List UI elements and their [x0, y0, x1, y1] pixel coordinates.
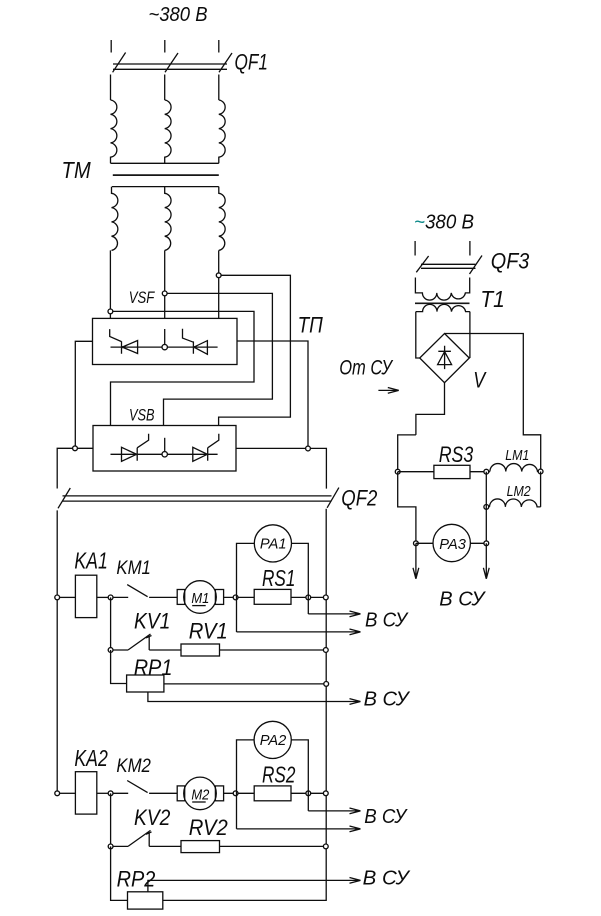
wire phase 1 to VSF [109, 250, 111, 318]
wire bridge plus output [445, 334, 541, 472]
breaker QF1 blade 1 [113, 53, 126, 73]
wire QF1 to TM phase 2 [164, 75, 166, 101]
svg-text:М1: М1 [191, 590, 209, 607]
breaker QF3 bus lines [421, 264, 476, 268]
svg-text:V: V [473, 367, 487, 392]
svg-text:RP1: RP1 [134, 655, 173, 680]
node RS3 left [395, 469, 400, 474]
wire rail to KA1 [60, 596, 76, 598]
wire VSF mid lead [164, 329, 166, 344]
svg-text:LM1: LM1 [505, 448, 529, 464]
ammeter PA1 [254, 525, 291, 562]
wire RV2 to rail [220, 845, 326, 847]
transformer TM primary winding 1 [111, 100, 117, 163]
wire RS3 to node [470, 471, 490, 473]
shunt RS1 [254, 589, 291, 604]
wire VSB mid lead [164, 438, 166, 452]
wire QF1 to TM phase 1 [110, 75, 112, 101]
node PA3 right [484, 541, 489, 546]
wire RS3 node down to PA3 [485, 472, 487, 544]
svg-text:ТМ: ТМ [62, 157, 92, 183]
wire bridge minus output [398, 383, 445, 472]
svg-text:RS3: RS3 [439, 442, 474, 467]
wire VSF left output [75, 341, 92, 448]
converter block VSB [93, 426, 236, 472]
breaker QF3 left blade [416, 256, 428, 272]
node rail RP1 row [324, 682, 329, 687]
wire TM secondary top bus [112, 186, 219, 188]
inductor LM1 [490, 464, 541, 472]
contact KV2 [113, 830, 181, 846]
wire PA1 left branch [237, 543, 255, 632]
transformer T1 primary [415, 278, 469, 301]
wire left branch to PA3 [398, 472, 416, 544]
inductor LM2 [486, 499, 540, 507]
resistor RP2 [128, 892, 163, 909]
svg-text:RS2: RS2 [262, 762, 295, 788]
node RS3 right [484, 469, 489, 474]
contact KM2 [113, 781, 177, 794]
node KV1 left [108, 648, 113, 653]
svg-text:KM1: KM1 [116, 558, 150, 579]
arrow Ot SU [378, 388, 398, 394]
wire PA1 right branch [292, 543, 309, 614]
svg-text:М2: М2 [191, 786, 210, 803]
wire to SU row2 b [237, 826, 361, 832]
wire tap phase 3 [219, 275, 291, 425]
svg-text:LM2: LM2 [507, 484, 531, 500]
svg-text:KA1: KA1 [74, 548, 107, 574]
wire KV2 node to RP2 [111, 846, 128, 900]
node M1 output [233, 595, 238, 600]
node VSB center [162, 452, 167, 457]
wire node to KV1 [110, 597, 112, 650]
wire left rail [56, 510, 58, 793]
svg-text:KV1: KV1 [134, 609, 170, 634]
motor M1 [177, 581, 223, 614]
transformer TM primary winding 2 [165, 100, 171, 163]
wire RV1 to rail [220, 649, 326, 651]
node rail KA2 row [55, 791, 60, 796]
svg-text:RV2: RV2 [189, 815, 228, 840]
node rail KV1 row [323, 648, 328, 653]
wire RS1 to rail [291, 596, 326, 598]
svg-text:~380 В: ~380 В [414, 210, 474, 233]
wire VSF internal bus [111, 346, 218, 348]
breaker QF3 right blade [470, 256, 483, 275]
svg-text:От СУ: От СУ [339, 356, 394, 379]
breaker QF1 blade 3 [219, 53, 232, 72]
wire RP1 to rail [164, 683, 326, 685]
svg-text:KM2: KM2 [116, 756, 151, 777]
contact KV1 [113, 634, 181, 650]
breaker QF1 bus lines [113, 64, 227, 69]
svg-text:~380 В: ~380 В [149, 3, 208, 26]
motor M2 [177, 777, 223, 810]
wire VSB right output [236, 448, 326, 488]
wire KV1 node to RP1 [111, 650, 127, 684]
wire M1 to RS1 [224, 596, 255, 598]
wire RP1 to SU [148, 692, 361, 704]
svg-text:QF3: QF3 [491, 249, 530, 274]
node PA3 left [414, 541, 419, 546]
svg-text:KA2: KA2 [74, 745, 107, 771]
resistor RP1 [127, 675, 164, 692]
arrow V SU left [413, 543, 419, 579]
transformer TM secondary winding 3 [219, 187, 225, 251]
svg-text:KV2: KV2 [134, 805, 170, 830]
phase stub L3 [218, 40, 220, 53]
svg-text:RP2: RP2 [117, 867, 156, 892]
rectifier bridge V diamond [420, 334, 470, 383]
wire to SU row1 a [308, 611, 360, 617]
wire T1 secondary right lead [469, 312, 471, 358]
wire PA2 left branch [237, 740, 255, 829]
wire node to KV2 [110, 793, 112, 846]
node RS2 right [306, 791, 311, 796]
contact KM1 [113, 585, 177, 598]
transformer TM primary winding 3 [219, 100, 225, 163]
wire VSB left output [57, 448, 93, 488]
wire KA1 to node [97, 596, 111, 598]
thyristor VSB right [193, 434, 219, 462]
node M2 output [233, 791, 238, 796]
node LM2 left [484, 505, 489, 510]
diode inside bridge [438, 346, 452, 369]
node rail M2 row [323, 791, 328, 796]
transformer TM core [113, 174, 219, 176]
phase stub L1 [110, 40, 112, 53]
svg-text:В СУ: В СУ [364, 689, 411, 711]
wire tap phase 2 [164, 293, 273, 425]
wire T1 secondary left lead [416, 312, 420, 358]
wire rail to KA2 [60, 792, 76, 794]
ammeter PA2 [254, 721, 291, 758]
svg-text:RV1: RV1 [189, 619, 228, 644]
node phase 1 tap [108, 309, 113, 314]
thyristor VSF left [110, 329, 138, 354]
wire TM primary bottom bus [111, 162, 219, 164]
wire VSF right output [237, 341, 308, 449]
node LM1 right [538, 469, 543, 474]
node VSB right [306, 446, 311, 451]
resistor RV2 [181, 841, 220, 853]
breaker QF2 left blade [58, 488, 70, 508]
node after KA1 [108, 595, 113, 600]
svg-text:ТП: ТП [298, 313, 324, 338]
svg-text:В СУ: В СУ [364, 806, 408, 828]
node rail KV2 row [323, 844, 328, 849]
svg-text:PA1: PA1 [260, 536, 287, 553]
shunt RS3 [434, 465, 470, 478]
svg-text:QF1: QF1 [235, 49, 268, 74]
wire RS2 to rail [291, 792, 326, 794]
arrow V SU right [483, 543, 489, 579]
svg-text:PA3: PA3 [439, 536, 466, 553]
breaker QF1 blade 2 [165, 53, 178, 72]
breaker QF2 right blade [327, 488, 339, 508]
transformer TM secondary winding 2 [165, 187, 171, 251]
wire PA3 left stub [416, 542, 433, 544]
svg-text:PA2: PA2 [260, 732, 287, 749]
svg-text:В СУ: В СУ [365, 609, 409, 631]
svg-text:VSB: VSB [129, 407, 155, 425]
wire PA2 right branch [291, 740, 308, 811]
relay coil KA2 [75, 772, 96, 814]
svg-text:VSF: VSF [129, 289, 155, 307]
wire QF1 to TM phase 3 [218, 75, 220, 101]
svg-text:QF2: QF2 [341, 486, 377, 511]
wire KA2 to node [97, 792, 111, 794]
node VSF center [162, 344, 167, 349]
wire tap phase 1 [110, 311, 254, 425]
wire to SU row2 a [308, 808, 360, 814]
node phase 3 tap [216, 273, 221, 278]
transformer T1 core [415, 302, 470, 304]
wire M2 to RS2 [224, 792, 255, 794]
phase stub L2 [164, 40, 166, 53]
node VSB left [73, 446, 78, 451]
transformer TM secondary winding 1 [112, 187, 118, 251]
transformer T1 secondary [416, 304, 470, 311]
resistor RV1 [181, 644, 220, 656]
wire PA3 right stub [470, 542, 486, 544]
node RS1 right [306, 595, 311, 600]
node rail M1 row [323, 595, 328, 600]
shunt RS2 [254, 786, 291, 801]
thyristor VSF right [183, 329, 208, 355]
node KV2 left [108, 844, 113, 849]
node rail KA1 row [55, 595, 60, 600]
wire LM1 to LM2 [540, 472, 542, 507]
wire right rail [163, 509, 326, 901]
svg-text:В СУ: В СУ [363, 868, 411, 890]
converter block VSF [93, 318, 238, 364]
wire phase 2 to VSF [164, 250, 166, 318]
relay coil KA1 [75, 575, 96, 617]
phase stub right 1 [414, 241, 416, 256]
breaker QF2 bus lines [63, 496, 332, 501]
wire phase 3 to VSF [218, 250, 220, 318]
wire RP2 to SU [148, 878, 361, 892]
wire VSB internal bus [111, 453, 218, 455]
node phase 2 tap [162, 291, 167, 296]
svg-text:В СУ: В СУ [439, 588, 486, 611]
svg-text:T1: T1 [480, 286, 504, 312]
ammeter PA3 [433, 524, 470, 561]
wire to SU row1 b [237, 629, 361, 635]
svg-text:RS1: RS1 [262, 565, 295, 591]
wire node to RS3 [398, 471, 434, 473]
phase stub right 2 [469, 241, 471, 256]
node after KA2 [108, 791, 113, 796]
thyristor VSB left [122, 434, 149, 462]
